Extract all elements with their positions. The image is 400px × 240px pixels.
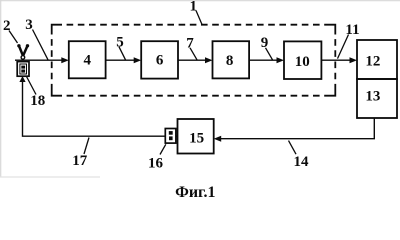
svg-text:17: 17 (72, 153, 88, 169)
svg-text:14: 14 (294, 154, 310, 170)
svg-text:18: 18 (30, 93, 45, 109)
svg-text:8: 8 (226, 53, 234, 69)
svg-text:Фиг.1: Фиг.1 (175, 184, 215, 201)
svg-text:12: 12 (365, 53, 380, 69)
svg-text:7: 7 (186, 36, 194, 52)
svg-text:11: 11 (345, 22, 359, 38)
svg-text:2: 2 (3, 18, 11, 34)
svg-text:13: 13 (365, 88, 380, 104)
svg-text:5: 5 (116, 35, 124, 51)
svg-text:9: 9 (261, 35, 269, 51)
svg-text:6: 6 (156, 52, 164, 68)
svg-text:15: 15 (189, 131, 204, 147)
svg-text:4: 4 (83, 52, 91, 68)
svg-text:10: 10 (295, 54, 310, 70)
svg-text:1: 1 (189, 0, 197, 14)
svg-text:16: 16 (148, 156, 164, 172)
svg-text:3: 3 (25, 17, 33, 33)
